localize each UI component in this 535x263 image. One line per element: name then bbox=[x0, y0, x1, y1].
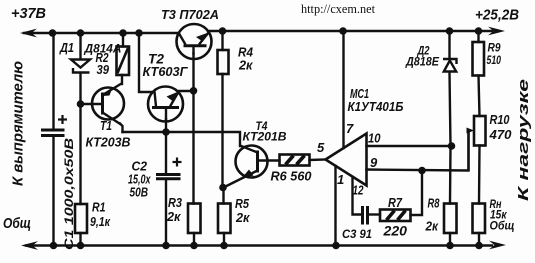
svg-text:2к: 2к bbox=[166, 210, 181, 224]
svg-text:КТ201В: КТ201В bbox=[243, 130, 287, 144]
svg-text:2к: 2к bbox=[425, 220, 439, 234]
wire R10 wiper stem bbox=[467, 131, 469, 171]
capacitor C1 bbox=[41, 115, 67, 136]
svg-text:Т1: Т1 bbox=[100, 118, 112, 133]
svg-text:220: 220 bbox=[382, 224, 407, 239]
resistor R9 bbox=[473, 42, 485, 76]
wire T1 base bbox=[81, 103, 102, 105]
svg-text:КТ603Г: КТ603Г bbox=[143, 65, 189, 79]
svg-text:9: 9 bbox=[370, 155, 378, 170]
wire R6 to op-amp input 5 bbox=[310, 158, 326, 161]
svg-text:С2: С2 bbox=[132, 160, 148, 174]
svg-text:2к: 2к bbox=[238, 58, 254, 73]
arrow rail top-right bbox=[488, 27, 505, 36]
wire top-right rail +25.2V bbox=[208, 30, 492, 32]
wire op-amp pin 12 to C3 bbox=[353, 177, 362, 215]
wire D1-R1 vertical bbox=[79, 33, 81, 59]
svg-text:К нагрузке: К нагрузке bbox=[515, 79, 532, 201]
wire bottom rail common bbox=[26, 244, 492, 246]
resistor R6 bbox=[280, 155, 310, 166]
wire node A horizontal T1/T2/T4 bbox=[123, 132, 241, 146]
wire T2 emitter to node B bbox=[179, 90, 194, 92]
resistor R1 bbox=[75, 204, 87, 233]
wire R10 wiper bbox=[469, 129, 471, 131]
svg-text:Д818Е: Д818Е bbox=[405, 57, 439, 69]
svg-text:R6 560: R6 560 bbox=[271, 169, 313, 184]
wire T4 base to R6 bbox=[258, 159, 280, 161]
wire C1 vertical bbox=[52, 33, 54, 129]
svg-text:Т3 П702А: Т3 П702А bbox=[161, 7, 219, 22]
svg-text:12: 12 bbox=[353, 183, 365, 198]
transistor T1 bbox=[92, 84, 124, 125]
svg-text:R3: R3 bbox=[168, 196, 182, 210]
wire R9 to R10 bbox=[479, 76, 480, 117]
potentiometer R10 bbox=[474, 116, 486, 146]
wire R8 bottom bbox=[449, 233, 451, 246]
svg-text:R10: R10 bbox=[490, 113, 510, 127]
svg-text:К1УТ401Б: К1УТ401Б bbox=[348, 99, 404, 114]
svg-text:10: 10 bbox=[368, 131, 381, 146]
wire top-left rail +37V bbox=[24, 32, 179, 34]
transistor T3 bbox=[177, 24, 212, 59]
svg-text:R7: R7 bbox=[388, 195, 403, 210]
svg-text:К выпрямителю: К выпрямителю bbox=[10, 61, 27, 186]
wire R3 bottom bbox=[193, 233, 195, 246]
svg-text:КТ203В: КТ203В bbox=[86, 136, 131, 150]
arrow rail top-left bbox=[20, 29, 37, 38]
wire R2 vertical bbox=[122, 33, 124, 47]
svg-text:Общ: Общ bbox=[3, 215, 31, 232]
svg-text:39: 39 bbox=[97, 63, 110, 77]
svg-text:С1 1000,0х50В: С1 1000,0х50В bbox=[62, 138, 76, 250]
wire D2 node to R8 bbox=[449, 146, 452, 204]
transistor T4 bbox=[224, 146, 268, 188]
svg-text:R8: R8 bbox=[428, 197, 440, 211]
svg-text:470: 470 bbox=[488, 128, 511, 142]
svg-text:R1: R1 bbox=[92, 201, 106, 215]
svg-text:1: 1 bbox=[337, 172, 344, 187]
svg-text:2к: 2к bbox=[235, 211, 250, 225]
svg-text:R5: R5 bbox=[235, 197, 250, 211]
svg-text:15,0х: 15,0х bbox=[128, 173, 151, 187]
wire op-amp pin 7 supply bbox=[342, 31, 344, 148]
wire R9 top bbox=[477, 31, 479, 42]
arrow R10 wiper head bbox=[467, 128, 475, 134]
wire C3 to R7 bbox=[369, 213, 380, 215]
wire T3 base vertical bbox=[192, 53, 194, 91]
wire T2 base / C2 vertical bbox=[165, 119, 167, 174]
arrow rail bottom-left bbox=[21, 241, 38, 250]
capacitor C3 bbox=[363, 206, 368, 225]
arrow rail bottom-right bbox=[489, 241, 506, 250]
wire op-amp pin 9 feedback bbox=[367, 131, 469, 171]
diode D1 zener bbox=[71, 60, 90, 73]
wire Rn bottom bbox=[478, 233, 480, 246]
wire op-amp pin 1 ground bbox=[334, 166, 336, 246]
wire T4 emitter node to R5 bbox=[222, 188, 224, 204]
svg-text:R9: R9 bbox=[488, 41, 501, 55]
wire R5 bottom bbox=[223, 233, 225, 246]
wire R7 to pin9 node bbox=[411, 171, 423, 216]
svg-text:5: 5 bbox=[317, 140, 325, 155]
capacitor C2 bbox=[156, 158, 182, 179]
svg-text:Д2: Д2 bbox=[417, 44, 430, 58]
wire node B to R3 bbox=[192, 91, 194, 204]
svg-text:+25,2В: +25,2В bbox=[475, 8, 519, 24]
wire T1 collector to node A bbox=[120, 124, 123, 133]
svg-text:9,1к: 9,1к bbox=[90, 215, 111, 229]
svg-text:7: 7 bbox=[346, 121, 354, 136]
svg-text:50В: 50В bbox=[130, 186, 149, 200]
wire R4 vertical bbox=[221, 31, 223, 50]
wire T2 collector to rail bbox=[139, 33, 152, 92]
resistor R5 bbox=[218, 204, 231, 234]
diode D2 zener bbox=[443, 59, 457, 72]
resistor R2 bbox=[117, 47, 130, 76]
resistor R3 bbox=[188, 204, 201, 234]
svg-text:+37В: +37В bbox=[11, 6, 46, 22]
svg-text:http://cxem.net: http://cxem.net bbox=[301, 2, 376, 16]
transistor T2 bbox=[148, 87, 183, 122]
svg-text:С3 91: С3 91 bbox=[342, 227, 372, 241]
wire D2 vertical bbox=[448, 31, 450, 59]
resistor R4 bbox=[218, 50, 229, 74]
svg-text:Общ: Общ bbox=[490, 219, 515, 233]
svg-text:Д1: Д1 bbox=[59, 41, 74, 55]
wire R10 to Rn bbox=[478, 146, 481, 204]
op-amp U1 K1UT401B bbox=[326, 134, 367, 186]
svg-text:510: 510 bbox=[487, 55, 502, 67]
resistor Rn load bbox=[473, 204, 486, 234]
wire op-amp pin 10 bbox=[367, 145, 452, 147]
resistor R8 bbox=[444, 204, 457, 234]
resistor R7 bbox=[380, 210, 411, 222]
